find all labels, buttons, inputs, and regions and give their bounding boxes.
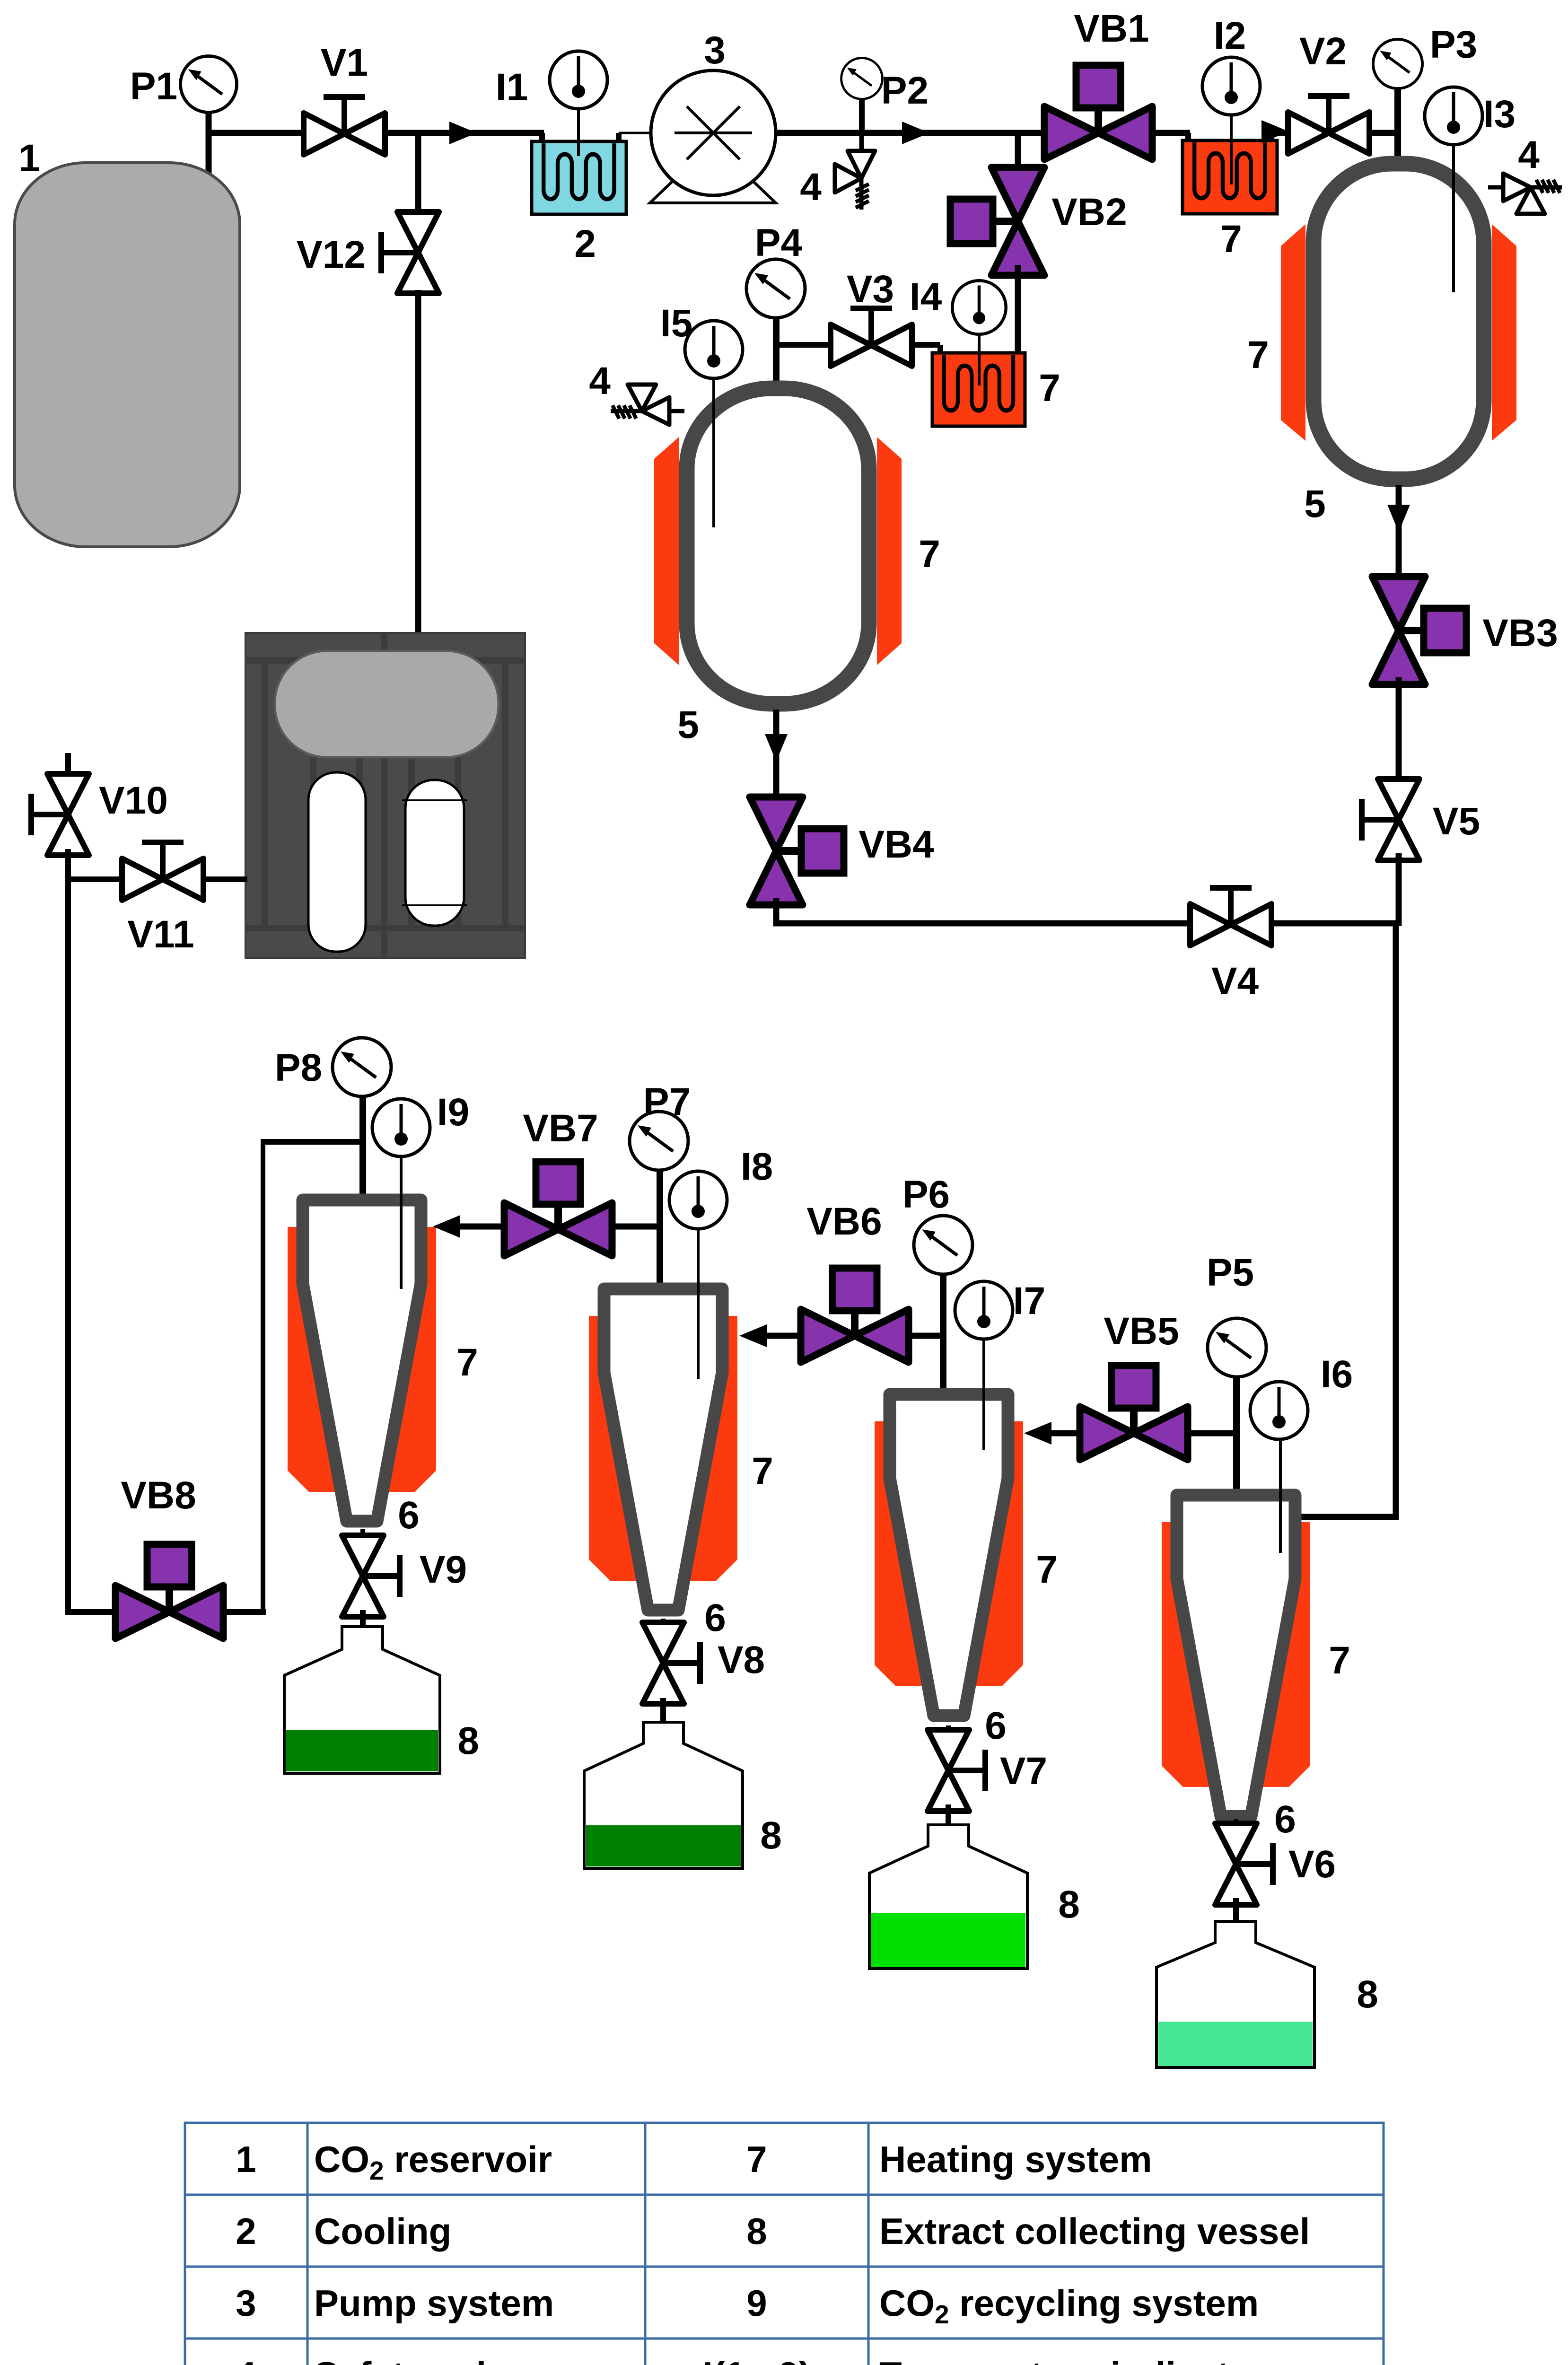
svg-text:Extract collecting vessel: Extract collecting vessel [879, 2210, 1310, 2252]
recycling system 9 outer box [245, 633, 525, 958]
wire V1 to cooler [382, 130, 544, 136]
wire V11 to recycling box [202, 876, 247, 882]
extract green fill bottle3 [871, 1913, 1025, 1967]
wire V3 to heater 7b [911, 342, 940, 348]
separator 6 #1 [288, 1200, 436, 1521]
svg-text:V10: V10 [99, 779, 168, 822]
cooler stubs [539, 133, 545, 144]
safety valve 4 drop wire [860, 133, 864, 156]
wire P1 stem to tank [206, 109, 212, 187]
svg-text:7: 7 [919, 533, 940, 576]
svg-text:VB1: VB1 [1074, 7, 1149, 50]
wire junction drop to V12 [415, 133, 421, 215]
table grid [185, 2123, 1384, 2365]
svg-text:6: 6 [1274, 1798, 1296, 1841]
pressure gauge P6 [914, 1216, 972, 1274]
svg-text:4: 4 [589, 359, 611, 403]
temperature indicator I6 stem [1279, 1438, 1282, 1553]
wire VB8 to separator1 riser [221, 1609, 266, 1615]
svg-text:VB5: VB5 [1104, 1310, 1179, 1353]
svg-text:Cooling: Cooling [314, 2210, 451, 2252]
svg-text:1: 1 [236, 2138, 256, 2180]
pump circle [651, 70, 776, 195]
blocking valve V5 [1362, 779, 1419, 860]
wire VB5 to separator3 with arrow [1045, 1430, 1082, 1437]
svg-text:V9: V9 [420, 1548, 467, 1591]
heating pad right of vessel 5 middle [877, 437, 902, 665]
svg-text:7: 7 [1039, 367, 1060, 410]
svg-text:VB7: VB7 [523, 1107, 598, 1150]
extraction vessel 5 (right) [1314, 164, 1484, 479]
wire VB1 to heater 7a [1152, 130, 1190, 136]
table text column 1 [236, 2138, 256, 2365]
recycling box inner panel lines [245, 633, 525, 958]
blocking valve V8 [642, 1622, 700, 1704]
svg-text:VB3: VB3 [1482, 612, 1558, 655]
wire V10 to junction [65, 849, 71, 882]
wire vessel middle bottom to VB4 [773, 709, 780, 802]
blocking valve V6 [1215, 1823, 1273, 1905]
pressure gauge P7 [630, 1112, 688, 1170]
wire VB4 down and right to V4 [773, 898, 780, 926]
flow arrow down to VB3 [1387, 505, 1410, 532]
svg-text:9: 9 [746, 2282, 767, 2324]
svg-text:2: 2 [574, 222, 596, 265]
flow arrow before VB1 region [902, 122, 929, 144]
wire VB6 to separator2 with arrow [761, 1333, 802, 1339]
svg-text:I7: I7 [1013, 1279, 1045, 1323]
safety valve 4 (right vessel vent right) [1488, 174, 1562, 214]
wire riser to VB8 [65, 1609, 117, 1615]
wire V7 to bottle3 [946, 1804, 951, 1859]
blocking valve V7 [928, 1730, 985, 1811]
svg-text:8: 8 [746, 2210, 767, 2252]
recycling cylinder right [405, 780, 464, 926]
wire separator1 tip to V9 [360, 1529, 365, 1538]
pump base [650, 182, 776, 203]
svg-text:VB6: VB6 [806, 1200, 882, 1243]
pressure gauge P3 stem [1394, 85, 1401, 166]
back pressure valve VB8 [115, 1544, 223, 1638]
extract collecting vessel 8 #2 [584, 1722, 743, 1868]
svg-text:P4: P4 [755, 221, 803, 264]
svg-text:8: 8 [457, 1719, 479, 1762]
svg-text:7: 7 [1329, 1639, 1350, 1682]
temperature indicator I5 [685, 321, 743, 378]
blocking valve V10 [31, 774, 89, 855]
flow arrow into V2 [1261, 120, 1289, 143]
thin wire cooler to pump [619, 132, 653, 134]
heating pad left of vessel 5 right [1281, 224, 1305, 441]
temperature indicator I1 stem [577, 106, 580, 156]
svg-text:Heating system: Heating system [879, 2138, 1152, 2180]
svg-text:V3: V3 [847, 268, 894, 311]
wire VB2 down to heater 7b [1015, 265, 1021, 356]
pressure gauge P3 [1373, 39, 1422, 88]
svg-text:8: 8 [1357, 1973, 1378, 2016]
wire V9 to bottle1 [360, 1610, 366, 1665]
blocking valve V2 [1288, 96, 1369, 154]
svg-text:6: 6 [398, 1494, 420, 1537]
extract green fill bottle1 [286, 1730, 438, 1771]
wire separator2 tip to V8 [661, 1619, 666, 1628]
pressure gauge P8 [333, 1038, 391, 1096]
blocking valve V11 [122, 842, 203, 900]
cooler coil [543, 143, 614, 199]
svg-text:7: 7 [752, 1450, 773, 1493]
pressure gauge P4 stem [773, 318, 780, 388]
svg-text:P5: P5 [1207, 1251, 1254, 1294]
svg-text:V2: V2 [1299, 30, 1347, 73]
svg-text:I9: I9 [437, 1091, 469, 1134]
blocking valve V3 [831, 308, 912, 366]
svg-text:Pump system: Pump system [314, 2282, 554, 2324]
heater 7a coil [1194, 142, 1265, 198]
blocking valve V12 [381, 212, 439, 293]
svg-text:P3: P3 [1430, 23, 1477, 66]
temperature indicator I5 stem [712, 376, 715, 527]
wire V2 to P3 stem [1367, 130, 1398, 136]
wire V8 to bottle2 [660, 1698, 666, 1757]
temperature indicator I9 [372, 1099, 430, 1156]
table text column 2 [314, 2138, 618, 2365]
svg-text:1: 1 [18, 137, 40, 180]
temperature indicator I3 [1425, 87, 1482, 145]
wire V4 to main riser junction [1270, 920, 1399, 927]
CO2 reservoir tank 1 [15, 163, 240, 547]
separator 6 #4 [1162, 1495, 1310, 1816]
temperature indicator I8 [669, 1171, 727, 1229]
svg-text:4: 4 [1518, 133, 1540, 176]
pressure gauge P2 [841, 58, 883, 99]
pressure gauge P7 stem [657, 1167, 663, 1291]
svg-text:6: 6 [985, 1704, 1007, 1747]
svg-text:V8: V8 [718, 1638, 765, 1682]
svg-text:P6: P6 [902, 1173, 950, 1216]
svg-text:6: 6 [704, 1596, 726, 1639]
back pressure valve VB6 [801, 1268, 909, 1362]
blocking valve V10 stub [65, 753, 71, 778]
temperature indicator I7 stem [982, 1337, 985, 1450]
blocking valve V1 [304, 97, 385, 155]
wire separator3 tip to V7 [946, 1726, 951, 1735]
separator 6 #2 [589, 1289, 737, 1610]
back pressure valve VB7 [504, 1162, 612, 1256]
temperature indicator I8 stem [697, 1227, 700, 1379]
blocking valve V4 [1190, 888, 1271, 946]
recycling compressor dome [275, 651, 499, 757]
extract collecting vessel 8 #1 [284, 1627, 440, 1773]
heater 7a stubs [1185, 133, 1191, 144]
svg-text:4: 4 [800, 166, 822, 209]
return riser down to VB8 [65, 879, 71, 1615]
svg-text:8: 8 [1058, 1883, 1080, 1926]
heating pad right of vessel 5 right [1492, 224, 1516, 441]
svg-text:V1: V1 [321, 41, 368, 84]
flow arrow down to VB4 [765, 734, 788, 762]
heating system 7a box [1183, 140, 1277, 214]
svg-text:I4: I4 [910, 275, 942, 318]
svg-text:VB8: VB8 [121, 1474, 196, 1517]
svg-text:I5: I5 [660, 302, 692, 345]
svg-text:I(1 - 9): I(1 - 9) [702, 2354, 811, 2365]
svg-text:V12: V12 [297, 233, 366, 276]
main riser down to separator 4 [1393, 923, 1399, 1520]
wire V12 to recycling box [415, 290, 421, 634]
extract green fill bottle2 [586, 1825, 741, 1866]
blocking valve V9 [342, 1535, 400, 1617]
svg-text:3: 3 [704, 29, 726, 72]
pump impeller cross [675, 131, 752, 134]
temperature indicator I2 stem [1230, 114, 1233, 184]
pressure gauge P8 stem [359, 1095, 366, 1204]
back pressure valve VB5 [1080, 1366, 1188, 1460]
svg-text:2: 2 [236, 2210, 256, 2252]
svg-text:I8: I8 [741, 1145, 773, 1188]
pressure gauge P5 stem [1233, 1375, 1240, 1497]
pressure gauge P6 stem [940, 1272, 946, 1395]
temperature indicator I9 stem [400, 1154, 403, 1289]
cylinder right chord lines [402, 799, 467, 801]
svg-text:P7: P7 [643, 1080, 691, 1123]
heater 7b coil [944, 355, 1013, 411]
separator 6 #3 [875, 1394, 1023, 1716]
svg-text:8: 8 [760, 1814, 782, 1857]
svg-text:7: 7 [746, 2138, 767, 2180]
flow arrow on feed pipe [449, 122, 477, 144]
svg-text:VB2: VB2 [1051, 191, 1127, 234]
pressure gauge P5 [1208, 1318, 1266, 1377]
svg-text:P1: P1 [130, 65, 177, 108]
wire branch down to VB2 [1015, 133, 1021, 171]
svg-text:5: 5 [1304, 482, 1326, 526]
wire main pipe P1 junction to V1 [206, 130, 307, 136]
safety valve 4 middle vessel (vent left) [611, 385, 684, 425]
wire V5 to junction [1396, 853, 1402, 926]
svg-text:5: 5 [677, 703, 699, 746]
temperature indicator I1 [550, 51, 607, 109]
temperature indicator I2 [1202, 57, 1260, 115]
cooling box 2 [532, 141, 626, 214]
extract green fill bottle4 [1158, 2022, 1313, 2066]
svg-text:I1: I1 [496, 66, 528, 109]
svg-text:V4: V4 [1211, 960, 1259, 1003]
wire VB6 to P6 stem [907, 1333, 946, 1339]
svg-text:3: 3 [236, 2282, 256, 2324]
temperature indicator I4 [952, 280, 1006, 334]
svg-text:I2: I2 [1214, 14, 1246, 57]
back pressure valve VB1 [1044, 65, 1152, 159]
temperature indicator I4 stem [978, 331, 981, 385]
wire vessel right bottom to VB3 [1396, 485, 1402, 584]
extraction vessel 5 (middle) [687, 388, 869, 704]
safety valve 4 (vent down) [835, 136, 875, 210]
heating pad left of vessel 5 middle [654, 437, 679, 665]
svg-text:V6: V6 [1288, 1843, 1336, 1886]
svg-text:I6: I6 [1321, 1353, 1353, 1396]
svg-text:7: 7 [1247, 333, 1269, 377]
pressure gauge P1 [180, 56, 237, 112]
svg-text:P8: P8 [275, 1046, 322, 1089]
table text column 3 [685, 2138, 828, 2365]
svg-text:Temperature indicator: Temperature indicator [879, 2354, 1266, 2365]
back pressure valve VB2 [950, 167, 1044, 275]
svg-text:CO2 reservoir: CO2 reservoir [314, 2138, 552, 2185]
pressure gauge P4 [746, 259, 805, 318]
wire riser top to P8 stem [263, 1139, 364, 1145]
temperature indicator I6 [1250, 1382, 1308, 1439]
wire V6 to bottle4 [1233, 1898, 1239, 1956]
svg-text:7: 7 [1036, 1548, 1058, 1591]
heating system 7b box [932, 353, 1025, 426]
wire separator4 tip to V6 [1234, 1819, 1238, 1829]
wire VB7 to separator1 with arrow [454, 1224, 506, 1230]
table text column 4 [879, 2138, 1310, 2365]
svg-text:P2: P2 [881, 69, 929, 112]
back pressure valve VB4 [750, 797, 844, 905]
pressure gauge P2 stem [859, 95, 865, 133]
svg-text:4: 4 [236, 2354, 256, 2365]
temperature indicator I7 [955, 1281, 1013, 1339]
svg-text:7: 7 [456, 1341, 478, 1384]
extract collecting vessel 8 #4 [1156, 1921, 1314, 2067]
svg-text:V11: V11 [127, 913, 194, 956]
extract collecting vessel 8 #3 [869, 1825, 1027, 1969]
wire junction to V11 [65, 876, 124, 882]
recycling cylinder left [308, 772, 366, 952]
wire VB3 to V5 [1396, 677, 1402, 786]
wire pump to VB1 [776, 130, 1045, 136]
wire VB7 to P7 stem [610, 1224, 662, 1230]
svg-text:VB4: VB4 [858, 823, 934, 866]
wire VB5 to P5 stem [1186, 1430, 1239, 1437]
svg-text:V7: V7 [1000, 1750, 1047, 1793]
separator1 riser up [261, 1139, 265, 1615]
svg-text:Safety valve: Safety valve [314, 2354, 527, 2365]
svg-text:V5: V5 [1433, 800, 1480, 843]
svg-text:7: 7 [1220, 218, 1242, 261]
back pressure valve VB3 [1372, 577, 1466, 684]
wire heater 7a to V2 [1271, 130, 1290, 136]
svg-text:I3: I3 [1483, 93, 1515, 136]
temperature indicator I3 stem [1452, 142, 1455, 292]
wire P4 stem to V3 [776, 342, 832, 348]
